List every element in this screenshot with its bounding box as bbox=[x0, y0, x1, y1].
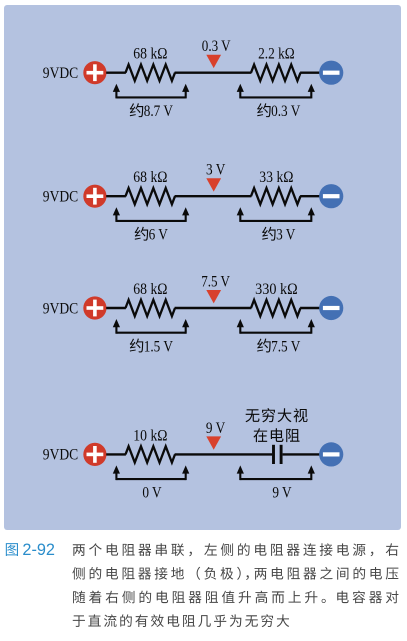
wire: right resistor to - terminal, row 1 bbox=[300, 71, 320, 73]
bracket label 约1.5 V row 3 bbox=[130, 338, 174, 355]
svg-text:2-92: 2-92 bbox=[22, 541, 55, 559]
voltage bracket across right element, row 1 bbox=[240, 96, 311, 98]
node voltage marker (red arrow), row 2 bbox=[206, 178, 221, 191]
node voltage marker (red arrow), row 4 bbox=[206, 436, 221, 449]
resistor R4a 10 kΩ bbox=[126, 446, 176, 462]
voltage bracket across left resistor, row 3 bbox=[116, 332, 185, 334]
battery negative terminal (-) row 2 bbox=[319, 184, 343, 208]
resistor R2a 68 kΩ bbox=[126, 188, 176, 204]
svg-text:9VDC: 9VDC bbox=[43, 189, 78, 206]
svg-text:6 V: 6 V bbox=[149, 227, 169, 244]
voltage bracket across right element, row 3 bbox=[240, 332, 311, 334]
battery positive terminal (+) row 2 bbox=[83, 185, 106, 208]
svg-text:1.5 V: 1.5 V bbox=[144, 338, 174, 355]
svg-text:0.3 V: 0.3 V bbox=[202, 38, 231, 55]
bracket label 约8.7 V row 1 bbox=[130, 103, 174, 120]
svg-text:8.7 V: 8.7 V bbox=[144, 103, 174, 120]
resistor R1b 2.2 kΩ bbox=[251, 65, 301, 81]
resistor R2b 33 kΩ bbox=[251, 188, 301, 204]
resistor R3b 330 kΩ bbox=[251, 300, 301, 316]
voltage bracket across left resistor, row 1 bbox=[116, 96, 185, 98]
svg-text:9VDC: 9VDC bbox=[43, 447, 78, 464]
svg-text:330 kΩ: 330 kΩ bbox=[255, 281, 298, 298]
figure panel background bbox=[4, 5, 401, 530]
svg-text:68 kΩ: 68 kΩ bbox=[133, 281, 167, 298]
bracket label 约6 V row 2 bbox=[135, 227, 169, 244]
svg-text:3 V: 3 V bbox=[276, 227, 296, 244]
battery positive terminal (+) row 4 bbox=[83, 443, 106, 466]
wire: right resistor to - terminal, row 2 bbox=[300, 195, 320, 197]
svg-text:0.3 V: 0.3 V bbox=[271, 103, 301, 120]
voltage bracket across right element, row 4 bbox=[240, 478, 311, 480]
svg-text:10 kΩ: 10 kΩ bbox=[133, 427, 167, 444]
resistor R1a 68 kΩ bbox=[126, 65, 176, 81]
wire: middle node between resistors, row 3 bbox=[175, 307, 252, 309]
wire: + terminal to left resistor, row 2 bbox=[106, 195, 126, 197]
svg-text:33 kΩ: 33 kΩ bbox=[259, 169, 293, 186]
label 无穷大视在电阻 (infinite apparent resistance) bbox=[245, 408, 307, 442]
battery negative terminal (-) row 3 bbox=[319, 296, 343, 320]
wire: middle node to capacitor, row 4 bbox=[175, 453, 273, 455]
svg-text:9VDC: 9VDC bbox=[43, 300, 78, 317]
voltage bracket across right element, row 2 bbox=[240, 220, 311, 222]
wire: + terminal to left resistor, row 1 bbox=[106, 71, 126, 73]
svg-text:3 V: 3 V bbox=[206, 162, 226, 179]
svg-text:2.2 kΩ: 2.2 kΩ bbox=[258, 46, 295, 63]
bracket label 约0.3 V row 1 bbox=[257, 103, 301, 120]
wire: + terminal to left resistor, row 3 bbox=[106, 307, 126, 309]
svg-text:9VDC: 9VDC bbox=[43, 65, 78, 82]
wire: right resistor to - terminal, row 3 bbox=[300, 307, 320, 309]
svg-text:0 V: 0 V bbox=[142, 485, 162, 502]
svg-text:9 V: 9 V bbox=[206, 420, 226, 437]
node voltage marker (red arrow), row 1 bbox=[206, 55, 221, 68]
wire: middle node between resistors, row 1 bbox=[175, 71, 252, 73]
voltage bracket across left resistor, row 4 bbox=[116, 478, 185, 480]
svg-text:68 kΩ: 68 kΩ bbox=[133, 169, 167, 186]
capacitor C1 (infinite apparent resistance) bbox=[274, 445, 282, 464]
svg-text:9 V: 9 V bbox=[272, 485, 292, 502]
battery negative terminal (-) row 1 bbox=[319, 61, 343, 85]
wire: middle node between resistors, row 2 bbox=[175, 195, 252, 197]
svg-text:68 kΩ: 68 kΩ bbox=[133, 46, 167, 63]
node voltage marker (red arrow), row 3 bbox=[206, 290, 221, 303]
svg-text:7.5 V: 7.5 V bbox=[201, 273, 230, 290]
wire: + terminal to left resistor, row 4 bbox=[106, 453, 126, 455]
caption text (4 lines) bbox=[72, 543, 398, 627]
voltage bracket across left resistor, row 2 bbox=[116, 220, 185, 222]
battery positive terminal (+) row 1 bbox=[83, 61, 106, 84]
bracket label 约3 V row 2 bbox=[262, 227, 296, 244]
caption: figure number 图 2-92 bbox=[6, 541, 55, 559]
bracket label 约7.5 V row 3 bbox=[257, 338, 301, 355]
battery positive terminal (+) row 3 bbox=[83, 296, 106, 319]
svg-text:7.5 V: 7.5 V bbox=[271, 338, 301, 355]
wire: capacitor to - terminal, row 4 bbox=[283, 453, 320, 455]
battery negative terminal (-) row 4 bbox=[319, 442, 343, 466]
resistor R3a 68 kΩ bbox=[126, 300, 176, 316]
